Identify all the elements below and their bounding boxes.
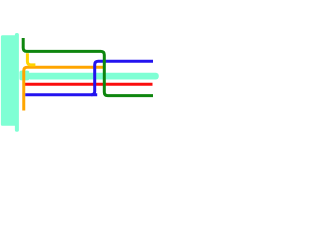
bus bar (teal horizontal) xyxy=(19,71,158,81)
connector J1 (teal block left) xyxy=(1,33,19,132)
wire blue xyxy=(25,93,97,96)
wire green xyxy=(23,38,153,96)
wire orange xyxy=(24,67,104,110)
wire red xyxy=(24,83,153,86)
wire yellow xyxy=(27,53,35,65)
